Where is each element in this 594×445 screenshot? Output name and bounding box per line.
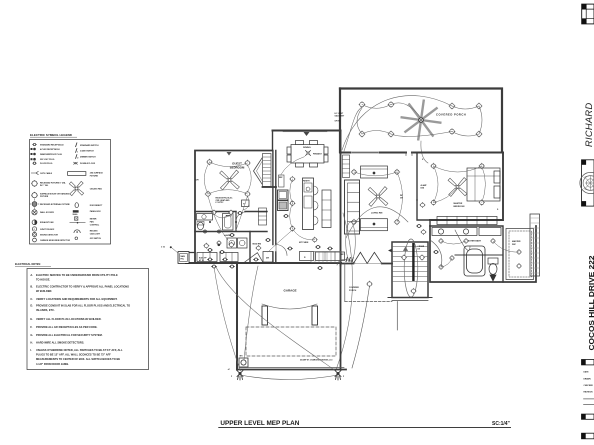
flood labels [231, 376, 345, 378]
svg-text:FIXTURE: FIXTURE [90, 175, 99, 177]
svg-text:GFI W: GFI W [335, 121, 341, 123]
living fan [368, 187, 388, 207]
mud rm sconce [256, 245, 261, 250]
svg-text:3-WAY SWITCH: 3-WAY SWITCH [80, 150, 94, 153]
svg-text:VERIFY LOCATIONS AND REQUIREME: VERIFY LOCATIONS AND REQUIREMENTS FOR AL… [36, 297, 118, 301]
svg-text:WEATHERPROOF PLUG: WEATHERPROOF PLUG [40, 153, 62, 156]
svg-text:METER: METER [90, 218, 97, 220]
electrical notes box [27, 269, 149, 370]
covered porch middle label [349, 287, 359, 292]
svg-text:RECESS: RECESS [90, 231, 99, 233]
wing bottom receptacles [204, 239, 333, 262]
svg-text:CATV CABLE: CATV CABLE [40, 172, 53, 175]
garage dashed rect [246, 327, 336, 356]
date drawn checked revision [584, 371, 594, 394]
svg-text:SMOKE DETECTOR: SMOKE DETECTOR [40, 234, 58, 236]
kitchen lights [284, 176, 321, 248]
svg-text:PANTRY: PANTRY [303, 180, 311, 183]
legend box [30, 140, 111, 245]
master bath walls [430, 226, 536, 282]
legend surface mount [31, 192, 70, 199]
entry wire [337, 259, 370, 368]
svg-text:C.: C. [30, 297, 33, 301]
legend catv row [31, 171, 53, 175]
svg-text:MASTER: MASTER [512, 240, 521, 243]
svg-text:REVISION: REVISION [584, 392, 594, 394]
porch middle light [367, 281, 373, 287]
svg-text:B.: B. [30, 285, 33, 289]
guest bedroom wires [204, 162, 251, 210]
svg-text:WALL SCONCE: WALL SCONCE [40, 211, 55, 214]
deck hatch strip [530, 214, 540, 276]
kitchen wires [268, 157, 315, 252]
svg-text:RECESSED EXTERNAL FIXTURE: RECESSED EXTERNAL FIXTURE [40, 203, 70, 206]
svg-text:CONTROL: CONTROL [90, 224, 100, 226]
address vertical text [587, 256, 594, 351]
kitchen island [303, 178, 314, 230]
svg-text:BEDROOM: BEDROOM [454, 206, 465, 208]
legend fan control [70, 221, 100, 227]
svg-text:UPPER LEVEL MEP PLAN: UPPER LEVEL MEP PLAN [220, 420, 299, 427]
svg-text:LT. ATTIC: LT. ATTIC [216, 201, 225, 204]
dining top wall [273, 130, 341, 132]
master tub [464, 246, 485, 276]
stair direction ellipse [404, 239, 418, 297]
svg-text:COCOS HILL DRIVE 222: COCOS HILL DRIVE 222 [587, 256, 594, 351]
electrical notes title [15, 263, 51, 266]
kitchen right counter [322, 190, 331, 228]
svg-text:H.: H. [30, 340, 33, 344]
master bath label [466, 240, 481, 243]
svg-text:LIVING RM: LIVING RM [371, 213, 382, 215]
legend 2x4 surface fixture [68, 172, 104, 178]
master closet row [437, 217, 497, 225]
svg-text:RICHARD: RICHARD [584, 103, 594, 147]
electrical notes text [30, 273, 130, 366]
strip block 4 [582, 433, 594, 439]
svg-text:PENDANT: PENDANT [313, 153, 323, 156]
tb box [242, 200, 250, 207]
title strip top block [582, 4, 594, 24]
master wires [434, 166, 486, 203]
svg-text:4-1/2" FROM DOOR JAMB.: 4-1/2" FROM DOOR JAMB. [36, 362, 69, 366]
guest closet rod [263, 154, 272, 187]
seal box [582, 160, 594, 206]
seal circle [580, 172, 594, 193]
bath label [226, 215, 232, 218]
svg-text:ELECTRIC CONTRACTOR TO VERIFY: ELECTRIC CONTRACTOR TO VERIFY & APPROVE … [36, 285, 129, 289]
panel label [161, 247, 186, 261]
mud rm label [253, 244, 262, 246]
svg-text:STANDARD RECEPTACLE: STANDARD RECEPTACLE [40, 143, 64, 146]
porch bottom wall [340, 153, 503, 156]
svg-text:VERIFY ALL FLOOR PLUG LOCATION: VERIFY ALL FLOOR PLUG LOCATIONS W/ BUILD… [36, 317, 102, 321]
legend meter [75, 217, 98, 221]
living wires [336, 172, 408, 370]
porch left labels [335, 113, 346, 123]
svg-text:HARD WIRE ALL SMOKE DETECTORS.: HARD WIRE ALL SMOKE DETECTORS. [36, 340, 85, 344]
svg-text:E.: E. [30, 317, 33, 321]
laundry symbols [208, 234, 235, 254]
svg-text:KITCHEN: KITCHEN [299, 242, 309, 244]
living rm label [371, 213, 382, 215]
svg-text:TO HOUSE.: TO HOUSE. [36, 278, 50, 282]
svg-text:2X4 SURFACE: 2X4 SURFACE [90, 172, 104, 175]
mud rm cubbies [259, 208, 267, 225]
mud rm door [244, 253, 263, 263]
garage floods [237, 371, 341, 381]
master lights [431, 163, 485, 205]
kitchen bottom cabinets [263, 252, 345, 263]
svg-text:GFI SWITCH: GFI SWITCH [90, 238, 102, 240]
garage walls [237, 264, 346, 370]
svg-text:WIC: WIC [512, 244, 516, 246]
svg-text:GAS VENT: GAS VENT [335, 115, 346, 118]
garage top receptacles [212, 265, 323, 270]
svg-text:W/ BUILDER.: W/ BUILDER. [36, 289, 52, 293]
svg-text:A.: A. [30, 273, 33, 277]
stair lights [401, 255, 425, 294]
covered porch walls [340, 89, 502, 153]
garage charging label [240, 356, 333, 362]
svg-text:EXHAUST FAN: EXHAUST FAN [40, 221, 54, 224]
strip lines [583, 399, 594, 405]
guest gfi label [196, 180, 200, 182]
bath wall [195, 212, 267, 232]
laundry wall [195, 232, 267, 264]
garage wires [214, 266, 336, 371]
closet bottom wall [263, 186, 277, 188]
sheet scale [492, 421, 511, 427]
richard vertical text [584, 103, 594, 147]
washer dryer [227, 238, 247, 248]
entry double door [353, 252, 381, 263]
svg-text:GFI: GFI [196, 180, 200, 182]
bath lights [434, 238, 522, 269]
svg-text:D.: D. [30, 304, 33, 308]
svg-text:MUD RM: MUD RM [253, 244, 262, 246]
legend smoke detector [32, 232, 58, 236]
sheet title [220, 420, 299, 427]
master fan [448, 178, 467, 197]
porch lights [359, 101, 482, 137]
stair center rail [412, 243, 414, 281]
garage label [284, 289, 297, 293]
svg-text:4-PLEX RECEPTACLE: 4-PLEX RECEPTACLE [40, 148, 61, 151]
hall lights [417, 202, 427, 234]
legend disconnect [75, 203, 103, 208]
legend panel box [73, 210, 102, 216]
catv loop [346, 222, 356, 261]
legend carbon monoxide detector [33, 238, 71, 242]
legend ceiling fan [69, 181, 102, 195]
guest bedroom label [230, 162, 245, 170]
master switch labels [422, 159, 499, 211]
dining west wall [273, 131, 276, 264]
wic label [512, 240, 521, 246]
living small labels [340, 184, 427, 256]
guest wing outer walls [195, 151, 272, 264]
svg-text:FAN: FAN [90, 221, 94, 224]
svg-text:PLUGS TO BE 12" AFF. ALL WALL: PLUGS TO BE 12" AFF. ALL WALL SCONCES TO… [36, 353, 111, 357]
title underline [218, 427, 511, 429]
master bedroom label [454, 202, 465, 208]
bath symbols [203, 210, 243, 233]
guest closet bifold doors [254, 158, 263, 184]
svg-text:CEILING FAN: CEILING FAN [90, 187, 103, 190]
svg-text:FIXTURE: FIXTURE [40, 196, 49, 198]
garage posts [262, 306, 318, 325]
svg-text:PNL: PNL [181, 258, 184, 260]
master bath vanity [432, 228, 501, 236]
kitchen door arc [276, 245, 287, 256]
guest bedroom fan [220, 170, 240, 190]
kitchen label [299, 242, 309, 244]
legend standard switch [76, 143, 100, 148]
floor plan [161, 89, 540, 381]
master bedroom walls [417, 153, 503, 220]
svg-text:J: J [34, 229, 35, 231]
legend receptacle rows [31, 143, 65, 165]
svg-text:CARBON MONOXIDE DETECTOR: CARBON MONOXIDE DETECTOR [40, 239, 71, 242]
covered porch label [436, 113, 466, 117]
svg-text:IN 1" GB.: IN 1" GB. [40, 185, 49, 187]
svg-text:AT 30: AT 30 [199, 259, 204, 262]
garage bottom corner boxes [239, 358, 248, 367]
legend gfi switch [75, 237, 102, 240]
meter leader [170, 246, 178, 253]
laundry label [224, 234, 235, 237]
svg-text:CAN LIGHT: CAN LIGHT [90, 232, 101, 235]
legend recessed can light [74, 230, 101, 236]
legend 3-way switch [76, 148, 95, 153]
svg-text:DW: DW [266, 258, 269, 260]
strip block 3 [582, 414, 594, 419]
svg-text:FLOOR PLUG: FLOOR PLUG [40, 163, 53, 165]
elec fp label [199, 258, 207, 263]
pantry shelf strip [279, 175, 285, 187]
legend title [30, 133, 77, 137]
svg-text:DRAWN: DRAWN [584, 378, 592, 381]
kitchen labels small [266, 177, 311, 260]
svg-text:PROVIDE CONDUIT IN SLAB FOR AL: PROVIDE CONDUIT IN SLAB FOR ALL FLOOR PL… [36, 304, 130, 308]
master toilet [488, 258, 498, 281]
legend exhaust fan [32, 220, 54, 225]
legend recessed external [30, 199, 71, 208]
entry wall [341, 263, 393, 265]
svg-text:ELECTRIC SYMBOL LEGEND: ELECTRIC SYMBOL LEGEND [30, 133, 73, 137]
svg-text:SC:1/4": SC:1/4" [492, 421, 511, 427]
stairs enclosure [388, 242, 432, 301]
svg-text:220 VOLT PLUG: 220 VOLT PLUG [40, 159, 55, 161]
living lights [351, 169, 400, 225]
svg-text:DATE: DATE [584, 371, 590, 374]
porch ceiling fan [402, 101, 441, 140]
porch slab edges [345, 264, 392, 302]
kitchen stools [314, 186, 319, 225]
master wic [506, 229, 534, 280]
bath wires [430, 230, 519, 267]
bath wires [208, 196, 248, 240]
dining chandelier [303, 147, 323, 156]
svg-text:COVERED: COVERED [349, 287, 359, 289]
guest window marker [227, 152, 232, 156]
svg-text:PANEL BOX: PANEL BOX [90, 210, 102, 213]
svg-text:DOUBLE FLOOD: DOUBLE FLOOD [80, 163, 96, 165]
svg-text:STANDARD SWITCH: STANDARD SWITCH [80, 144, 99, 147]
porch wires [342, 96, 482, 163]
svg-text:F.: F. [30, 325, 32, 329]
refrigerator boxes [278, 190, 289, 211]
svg-text:JUNCTION BOX: JUNCTION BOX [40, 229, 55, 231]
svg-text:ELECTRIC SERVICE TO BE UNDERGR: ELECTRIC SERVICE TO BE UNDERGROUND FROM … [36, 273, 118, 277]
svg-text:PORCH: PORCH [349, 290, 357, 292]
svg-text:50 AMP ST. CHARGING STATION +1: 50 AMP ST. CHARGING STATION +110 [300, 359, 332, 362]
svg-text:RECESSED FIXTURE 6" DIA.: RECESSED FIXTURE 6" DIA. [40, 181, 66, 184]
svg-text:GARAGE: GARAGE [284, 289, 297, 293]
svg-text:UNLESS OTHERWISE NOTED, ALL SW: UNLESS OTHERWISE NOTED, ALL SWITCHES TO … [36, 348, 123, 352]
pantry shelves column [343, 155, 350, 178]
electrical panel boxes [178, 252, 189, 264]
svg-text:PROVIDE ALL GFI RECEPTACLES AS: PROVIDE ALL GFI RECEPTACLES AS PER CODE. [36, 325, 98, 329]
left flood marker [228, 369, 231, 371]
living west wall [340, 131, 342, 266]
svg-text:PROVIDE ALL ELECTRICAL FOR SEC: PROVIDE ALL ELECTRICAL FOR SECURITY SYST… [36, 333, 103, 337]
svg-text:MEASUREMENTS TO CENTER OF BOX.: MEASUREMENTS TO CENTER OF BOX. ALL SWITC… [36, 357, 120, 361]
living sofa [345, 166, 388, 234]
svg-text:DISCONNECT: DISCONNECT [90, 205, 103, 207]
bath fixtures [197, 214, 234, 231]
bottom window cabinets [197, 253, 238, 262]
svg-text:CHECKED: CHECKED [584, 385, 594, 387]
legend double flood [74, 162, 96, 165]
bath door arc [236, 212, 246, 222]
dining table [287, 141, 328, 168]
legend dimmer switch [76, 154, 97, 159]
svg-text:G.: G. [30, 333, 33, 337]
svg-text:DINING: DINING [303, 147, 311, 149]
strip block 2 [582, 360, 594, 365]
garage door arc [262, 304, 317, 309]
legend junction box [32, 227, 55, 231]
stair drop line [396, 302, 398, 331]
master bed [467, 168, 500, 201]
svg-text:DIMMER SWITCH: DIMMER SWITCH [80, 157, 96, 159]
svg-text:COVERED PORCH: COVERED PORCH [436, 113, 466, 117]
svg-text:MASTER: MASTER [454, 202, 463, 205]
svg-text:ELECTRICAL NOTES:: ELECTRICAL NOTES: [15, 263, 41, 266]
entry switch cluster [346, 258, 353, 262]
stair treads [393, 247, 427, 282]
stairs dn arrow [388, 249, 392, 252]
hall walls [417, 200, 430, 226]
dining window marker [283, 132, 327, 136]
stair label [418, 246, 425, 250]
legend wall sconce [32, 210, 55, 215]
svg-text:ISLANDS, ETC.: ISLANDS, ETC. [36, 308, 55, 312]
legend recessed fixture [31, 180, 66, 187]
entry step band [311, 252, 341, 263]
guest bedroom note [216, 198, 234, 205]
svg-text:SURFACE MOUNT OR HANGING: SURFACE MOUNT OR HANGING [40, 192, 70, 195]
wing bottom wall [186, 253, 341, 264]
guest bedroom lights [205, 159, 251, 197]
